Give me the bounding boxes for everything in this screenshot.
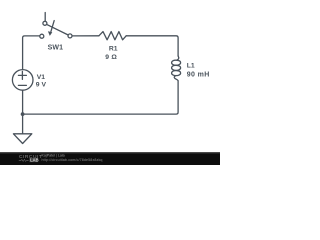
- svg-text:9 Ω: 9 Ω: [105, 54, 117, 61]
- svg-text:90 mH: 90 mH: [187, 72, 210, 79]
- svg-text:R1: R1: [109, 45, 118, 52]
- svg-text:LAB: LAB: [30, 157, 39, 162]
- svg-text:http://circuitlab.com/c/78de58: http://circuitlab.com/c/78de58x8zkq: [42, 158, 103, 162]
- svg-text:9 V: 9 V: [36, 82, 47, 89]
- svg-text:SW1: SW1: [48, 44, 63, 51]
- svg-text:KajPatel | Lala: KajPatel | Lala: [42, 154, 65, 158]
- svg-text:V1: V1: [37, 74, 46, 81]
- svg-text:L1: L1: [187, 63, 195, 70]
